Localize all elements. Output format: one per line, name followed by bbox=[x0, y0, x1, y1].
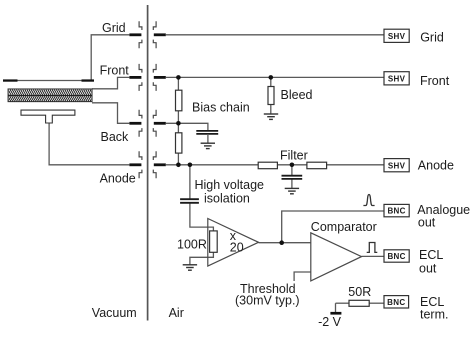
svg-text:Back: Back bbox=[101, 130, 130, 144]
svg-text:BNC: BNC bbox=[387, 207, 405, 216]
svg-text:Front: Front bbox=[100, 63, 130, 77]
svg-text:(30mV typ.): (30mV typ.) bbox=[235, 294, 300, 308]
svg-text:Anode: Anode bbox=[100, 172, 136, 186]
svg-text:20: 20 bbox=[230, 240, 244, 254]
svg-text:SHV: SHV bbox=[388, 32, 406, 41]
svg-text:Bleed: Bleed bbox=[281, 88, 313, 102]
svg-text:BNC: BNC bbox=[387, 298, 405, 307]
svg-text:BNC: BNC bbox=[387, 252, 405, 261]
svg-text:Front: Front bbox=[420, 74, 450, 88]
svg-text:50R: 50R bbox=[348, 285, 371, 299]
svg-text:out: out bbox=[419, 262, 437, 276]
svg-text:Filter: Filter bbox=[280, 148, 308, 162]
svg-text:isolation: isolation bbox=[204, 192, 250, 206]
svg-text:Vacuum: Vacuum bbox=[92, 306, 137, 320]
svg-text:Comparator: Comparator bbox=[311, 220, 377, 234]
svg-text:SHV: SHV bbox=[388, 74, 406, 83]
svg-text:100R: 100R bbox=[177, 238, 207, 252]
svg-text:ECL: ECL bbox=[419, 248, 443, 262]
svg-text:SHV: SHV bbox=[388, 161, 406, 170]
svg-text:High voltage: High voltage bbox=[195, 178, 265, 192]
svg-text:-2 V: -2 V bbox=[318, 315, 342, 329]
svg-text:Bias chain: Bias chain bbox=[192, 100, 250, 114]
svg-text:Grid: Grid bbox=[102, 21, 126, 35]
svg-text:Air: Air bbox=[169, 306, 184, 320]
svg-text:Anode: Anode bbox=[418, 158, 454, 172]
svg-text:Grid: Grid bbox=[420, 31, 444, 45]
svg-text:term.: term. bbox=[420, 308, 448, 322]
svg-text:out: out bbox=[418, 216, 436, 230]
